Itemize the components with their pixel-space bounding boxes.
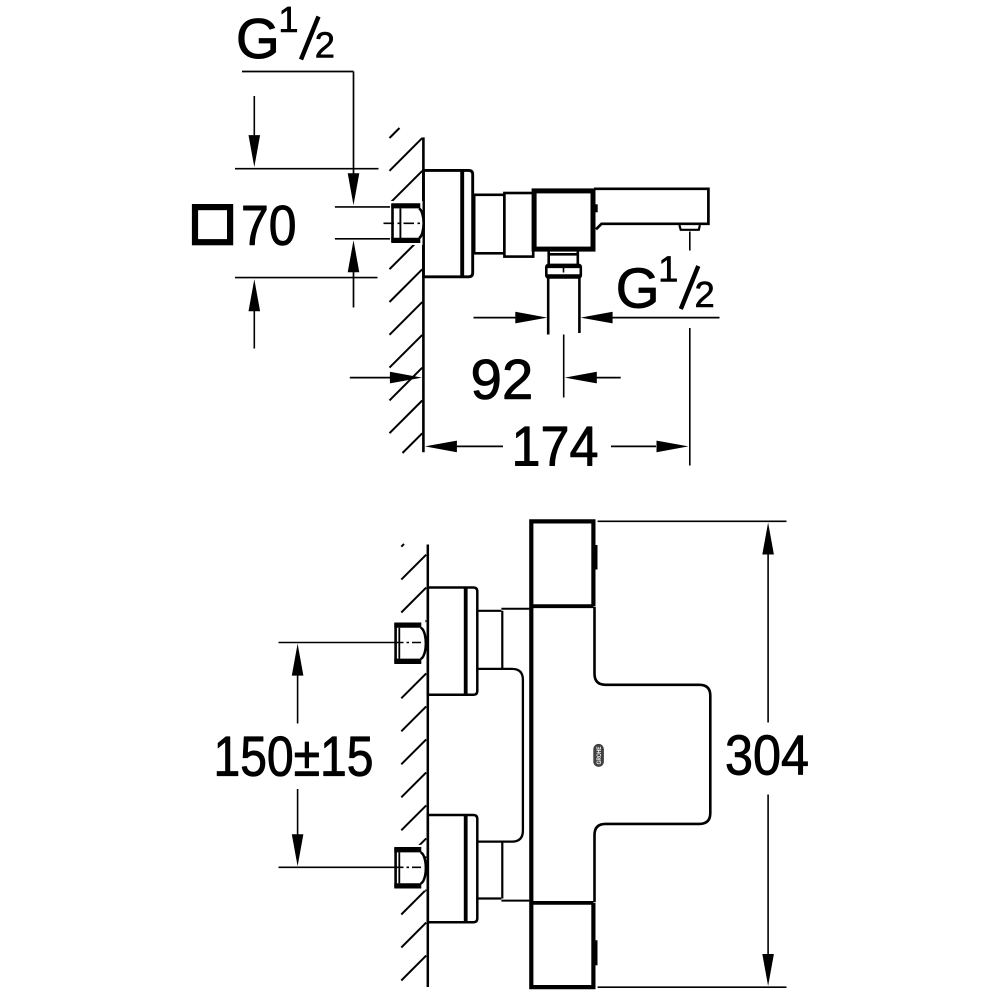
- leader line for top G1/2: [242, 72, 354, 308]
- top view: diverter neck below body: [549, 251, 578, 265]
- bottom view: right edge thick marks: [593, 545, 597, 570]
- top view: valve neck cylinder 1: [474, 195, 504, 254]
- top view: wall union nut: [384, 201, 424, 245]
- dimension text 70: [244, 205, 295, 245]
- top view: wall line: [422, 137, 425, 452]
- top view: nut thread extension lines (G1/2): [335, 207, 390, 239]
- bottom view: lower S-union cylinder: [478, 842, 502, 899]
- top view: valve neck cylinder 2: [504, 193, 533, 257]
- top view: aerator centerline / 174 extension line: [689, 232, 691, 466]
- GROHE logo: [593, 744, 604, 767]
- top view: tube centerline / 92 extension: [563, 335, 565, 398]
- dimension 174: [455, 445, 656, 447]
- bottom view: jog lines to body: [501, 609, 529, 901]
- bottom view: wall line: [427, 545, 430, 988]
- bottom view: lower nut: [389, 845, 426, 891]
- dimension 304: [598, 521, 787, 987]
- dimension G1/2 hose: [474, 317, 720, 319]
- bottom view: upper nut: [389, 620, 426, 666]
- top view: escutcheon plate: [424, 170, 473, 276]
- square symbol: [195, 207, 230, 242]
- bottom view: middle protrusion outline: [595, 607, 711, 902]
- top view: hose connection tube: [548, 278, 579, 335]
- bottom view: upper escutcheon: [428, 588, 477, 695]
- bottom view: upper S-union cylinder: [478, 611, 502, 669]
- label G1/2 (spout-hose): [619, 256, 713, 309]
- top view: spout aerator nub: [679, 225, 700, 230]
- dimension 70 extension lines: [235, 96, 379, 349]
- top view: hose flange ring: [546, 265, 581, 278]
- top view: mixer body box (thick): [534, 191, 593, 249]
- bottom view: slab divider lines: [531, 606, 593, 903]
- top view: escutcheon divider line: [460, 170, 464, 276]
- top view: flange center tick: [563, 267, 565, 273]
- dimension 150±15: [279, 643, 422, 868]
- top view: spout: [594, 189, 708, 230]
- label G1/2 (top-left): [239, 7, 333, 60]
- bottom view: connecting bracket tube: [478, 669, 523, 842]
- bottom view: wall hatching: [401, 544, 426, 981]
- bottom view: lower escutcheon: [428, 815, 477, 922]
- top view: wall hatching: [390, 128, 423, 453]
- top view: body right-edge notch: [593, 204, 598, 212]
- bottom view: body tall slab (thick, right edge open at protrusion): [531, 521, 593, 987]
- dimension 92: [350, 377, 621, 379]
